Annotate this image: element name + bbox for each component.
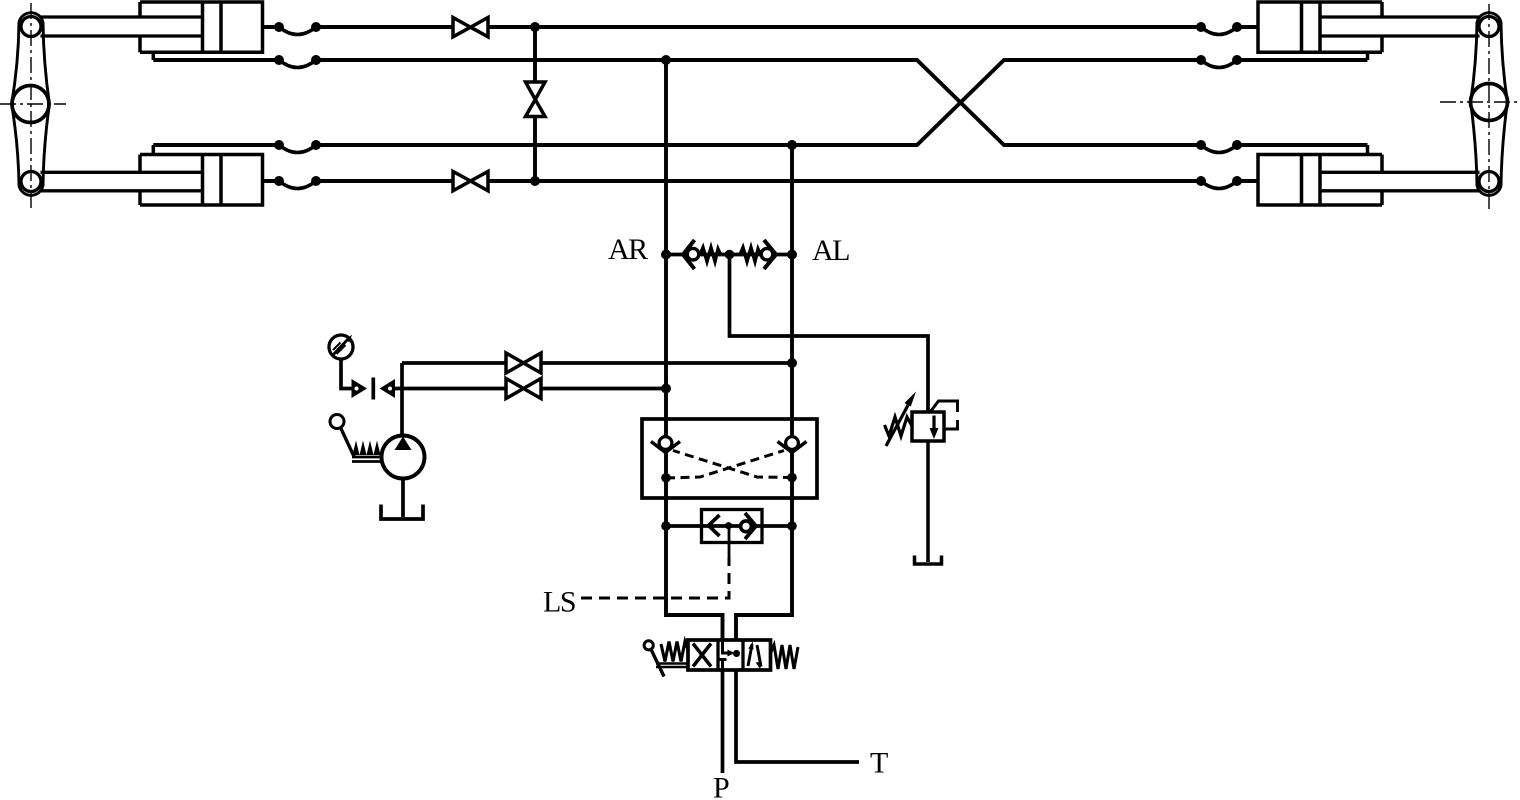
wire AL riser x=792 bbox=[736, 145, 792, 640]
relief valve spring bbox=[885, 417, 913, 436]
relief valve pilot diagonal bbox=[931, 401, 939, 412]
tank (relief) bbox=[915, 556, 942, 565]
wire P port bbox=[721, 670, 725, 773]
pump outlet wire A (to AL riser) bbox=[402, 361, 792, 365]
steering link left (lens shape) bbox=[12, 13, 50, 196]
right bottom pivot circle bbox=[1479, 172, 1499, 192]
shuttle valve cross wire y=526 bbox=[666, 524, 792, 528]
tank (pump) bbox=[381, 505, 423, 520]
wire line4 left bbox=[263, 179, 454, 183]
hose 8 (line4 right) bbox=[1201, 181, 1237, 189]
shuttle valve pilot stub bbox=[728, 526, 731, 559]
pilot check left ball bbox=[659, 437, 672, 450]
hand pump outlet wire bbox=[400, 363, 404, 436]
hand pump flow triangle bbox=[395, 437, 412, 451]
bypass wire x=535 vertical bbox=[533, 27, 537, 181]
centerline left vertical bbox=[30, 3, 32, 211]
junction AR node bbox=[661, 250, 671, 260]
directional valve left cell X bbox=[693, 644, 711, 667]
junction pilot left bbox=[661, 473, 671, 483]
hose 6 (line3 right) bbox=[1201, 60, 1237, 68]
junction crossport middle bbox=[725, 250, 735, 260]
wire line2 (upper left to lower right) bbox=[153, 60, 1367, 145]
cylinder C4 bottom-right body bbox=[1258, 155, 1382, 206]
left bottom pivot circle bbox=[21, 172, 41, 192]
shuttle valve left seat bbox=[709, 515, 720, 536]
pilot check right seat bbox=[778, 442, 807, 453]
relief valve adjust arrow bbox=[886, 402, 910, 447]
hand pump circle bbox=[382, 436, 425, 479]
wire AR-AL cross line y=254.5 bbox=[666, 253, 792, 257]
shuttle valve body bbox=[702, 510, 763, 543]
shuttle valve right seat bbox=[745, 513, 756, 539]
hose 2 (line2 left) bbox=[279, 60, 316, 68]
junction line2/AR riser bbox=[661, 55, 671, 65]
directional valve middle cell dot bbox=[733, 650, 740, 657]
hand pump detent spring (sawtooth) bbox=[353, 441, 381, 456]
cylinder C2 rod bbox=[41, 172, 203, 191]
cylinder C3 piston bbox=[1302, 2, 1321, 52]
svg-text:AR: AR bbox=[608, 233, 648, 266]
svg-text:T: T bbox=[870, 747, 888, 780]
hand pump lever arm bbox=[341, 428, 355, 457]
junction bypass bottom bbox=[530, 176, 540, 186]
pilot check valve block bbox=[642, 419, 817, 498]
crossport relief right spring bbox=[740, 248, 761, 262]
cylinder C1 top-left body bbox=[140, 2, 263, 52]
cylinder C4 rod bbox=[1320, 172, 1480, 191]
cylinder C1 rod bbox=[41, 17, 203, 36]
pressure gauge bbox=[329, 335, 353, 359]
junction AL node bbox=[787, 250, 797, 260]
centerline right vertical bbox=[1488, 4, 1490, 213]
relief valve body bbox=[912, 412, 944, 441]
left kingpin circle bbox=[12, 86, 49, 123]
junction bypass top bbox=[530, 22, 540, 32]
LS pilot wire (dashed) bbox=[581, 557, 729, 598]
cylinder C2 top port stub bbox=[152, 145, 156, 155]
junction shuttle right bbox=[787, 521, 797, 531]
directional valve right spring bbox=[771, 645, 799, 669]
shutoff valve V1 on line1 bbox=[453, 18, 488, 37]
hose 5 (line1 right) bbox=[1201, 27, 1237, 35]
directional valve middle cell blocked P bbox=[719, 660, 727, 671]
cylinder C3 top-right body bbox=[1258, 2, 1382, 52]
gauge wire B (to AR riser) bbox=[341, 359, 666, 389]
wire line1 left bbox=[263, 25, 454, 29]
svg-text:AL: AL bbox=[812, 234, 849, 267]
junction pump line A / AL riser bbox=[787, 358, 797, 368]
directional valve cell dividers bbox=[718, 640, 743, 670]
shuttle valve pilot tap dot bbox=[725, 522, 732, 529]
directional valve left spring bbox=[661, 642, 688, 662]
directional valve right cell arrows bbox=[748, 645, 761, 667]
gauge needle bbox=[332, 338, 350, 357]
crossport relief left ball bbox=[687, 248, 699, 260]
wire line4 right bbox=[1237, 179, 1258, 183]
hose 4 (line4 left) bbox=[279, 181, 316, 189]
cylinder C4 top port stub bbox=[1366, 145, 1370, 155]
shuttle valve ball bbox=[741, 521, 752, 532]
hose 3 (line3 left) bbox=[279, 145, 316, 153]
junction shuttle left bbox=[661, 521, 671, 531]
cylinder C3 bottom port stub bbox=[1366, 52, 1370, 60]
pilot line right-to-left (dashed) bbox=[673, 451, 792, 478]
wire AR riser x=666 bbox=[666, 60, 723, 640]
junction gauge line / AR riser bbox=[661, 384, 671, 394]
test coupling center bar bbox=[371, 378, 375, 400]
cylinder C3 rod bbox=[1320, 17, 1480, 36]
shutoff valve V4 on pump line A bbox=[506, 353, 541, 373]
wire line1 right bbox=[1237, 25, 1258, 29]
directional valve body bbox=[688, 640, 771, 670]
directional valve middle cell L-arrow bbox=[723, 641, 730, 653]
crossport relief right ball bbox=[761, 248, 773, 260]
wire line3 (lower left to upper right) bbox=[153, 60, 1367, 145]
crossport relief right seat bbox=[764, 240, 776, 269]
cylinder C4 piston bbox=[1302, 155, 1321, 206]
shutoff valve V2 on line4 bbox=[453, 172, 488, 191]
directional valve lever knob bbox=[644, 641, 653, 650]
centerline left horizontal bbox=[0, 103, 66, 105]
shutoff valve V5 on gauge line B bbox=[506, 379, 541, 399]
relief valve pilot bracket (dashed) bbox=[938, 401, 958, 429]
shutoff valve V3 vertical on bypass bbox=[526, 82, 546, 117]
crossport relief left spring bbox=[700, 248, 721, 262]
directional valve lever rail bbox=[656, 664, 688, 668]
wire line1 middle bbox=[488, 25, 1201, 29]
relief valve tank wire bbox=[926, 441, 930, 562]
steering link right (lens shape) bbox=[1471, 13, 1508, 196]
wire crossport middle to relief valve bbox=[730, 255, 929, 413]
test coupling right half bbox=[380, 379, 396, 398]
hand pump suction wire bbox=[401, 479, 405, 518]
right top pivot circle bbox=[1479, 17, 1499, 37]
junction pilot right bbox=[787, 473, 797, 483]
wire T port bbox=[736, 670, 859, 762]
hand pump lever rail bbox=[352, 457, 383, 462]
wire line4 middle bbox=[488, 179, 1201, 183]
cylinder C1 piston bbox=[203, 2, 222, 52]
right kingpin circle bbox=[1471, 84, 1508, 121]
hand pump lever knob bbox=[330, 415, 344, 429]
hose 7 (line2 right) bbox=[1201, 145, 1237, 153]
cylinder C2 bottom-left body bbox=[140, 155, 263, 206]
left top pivot circle bbox=[21, 17, 41, 37]
junction line3/AL riser bbox=[787, 140, 797, 150]
pilot check left seat bbox=[651, 442, 680, 453]
cylinder C1 bottom port stub bbox=[152, 52, 156, 60]
relief valve flow arrow bbox=[932, 416, 935, 432]
svg-text:P: P bbox=[713, 772, 730, 800]
hose 1 (line1 left) bbox=[279, 27, 316, 35]
centerline right horizontal bbox=[1440, 101, 1520, 103]
crossport relief left seat bbox=[683, 240, 695, 269]
svg-text:LS: LS bbox=[543, 586, 575, 619]
directional valve lever arm bbox=[651, 649, 664, 676]
cylinder C2 piston bbox=[203, 155, 222, 206]
pilot check right ball bbox=[786, 437, 799, 450]
test coupling left half bbox=[352, 379, 368, 398]
pilot line left-to-right (dashed) bbox=[666, 451, 784, 479]
